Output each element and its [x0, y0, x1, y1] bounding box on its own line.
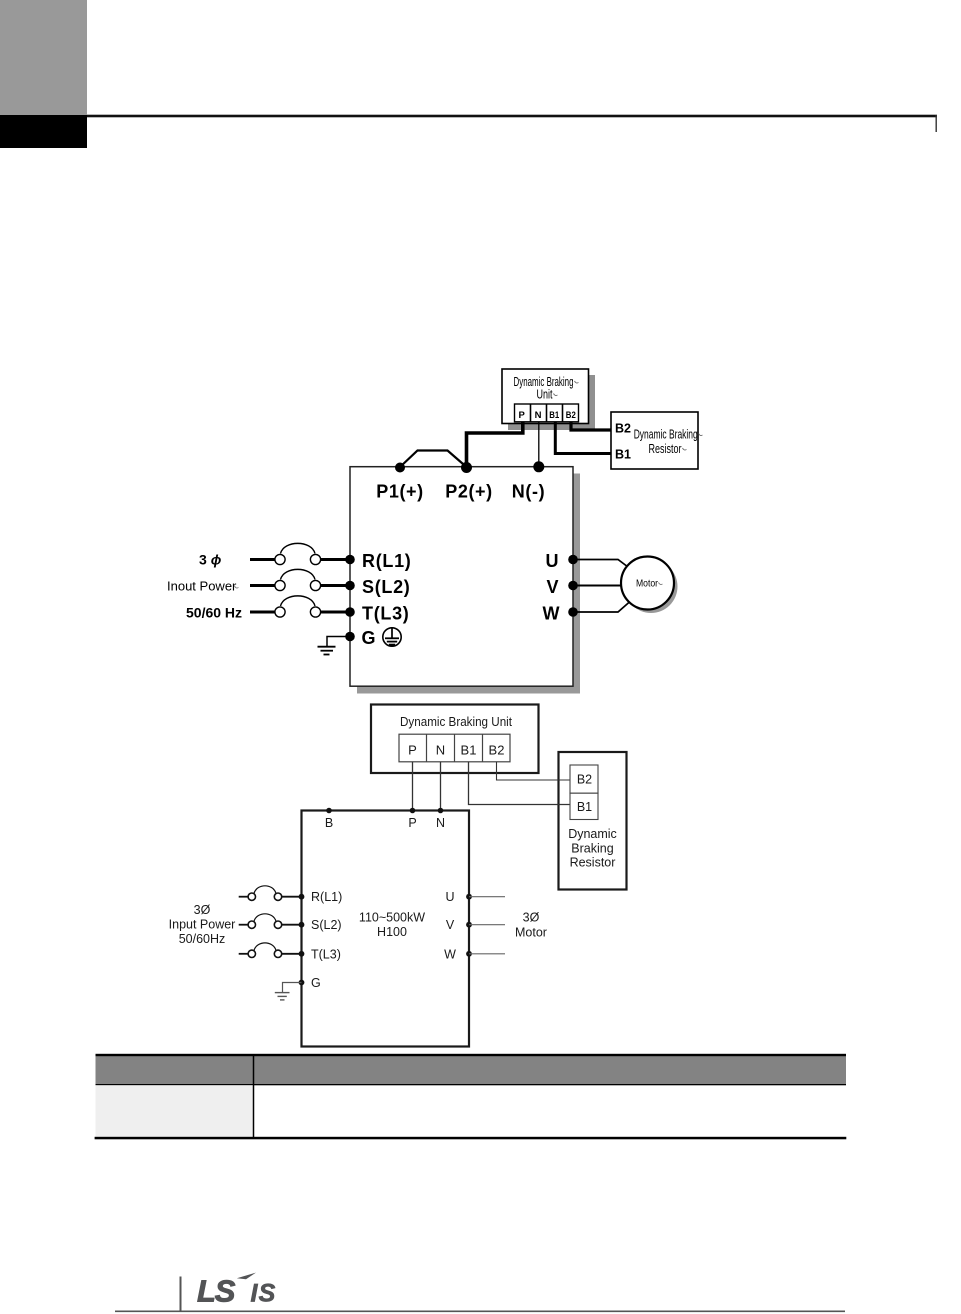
svg-text:B2: B2 [577, 773, 592, 787]
wire B2 unit to resistor 2 [497, 762, 571, 780]
svg-text:P: P [408, 816, 416, 830]
svg-text:Inout Power: Inout Power [167, 579, 237, 594]
svg-text:Braking: Braking [571, 842, 613, 856]
svg-text:B1: B1 [577, 800, 592, 814]
svg-text:T(L3): T(L3) [362, 603, 410, 623]
dynamic braking unit U20 box [371, 705, 539, 774]
svg-text:N: N [535, 410, 542, 421]
LSIS logo [197, 1273, 277, 1309]
label P2(+) [445, 481, 493, 501]
label W [543, 603, 560, 623]
header black sidebar block [0, 115, 87, 148]
dynamic braking unit U10 title [514, 374, 579, 401]
label S(L2) [362, 577, 411, 597]
wire U to motor [573, 560, 630, 569]
terminal strip U20 [399, 734, 510, 762]
wire N2 unit to inverter [440, 762, 442, 811]
svg-text:LS: LS [197, 1274, 236, 1309]
pin B2 label U10 [566, 410, 576, 421]
terminal dot G 2 [299, 980, 305, 986]
dynamic braking resistor R10 box [611, 412, 698, 469]
motor M1 [621, 557, 674, 610]
wire P to P2 [467, 422, 523, 466]
terminal dot R(L1) [345, 555, 355, 565]
table column divider [253, 1054, 255, 1137]
terminal dot V 2 [466, 922, 472, 928]
dynamic braking unit U10 box [502, 369, 589, 424]
svg-text:V: V [446, 918, 455, 932]
svg-text:R(L1): R(L1) [362, 551, 412, 571]
label 3 phase motor 2 [515, 911, 547, 940]
inverter box 2 [302, 811, 470, 1047]
header rule [87, 115, 937, 118]
wire B2 to resistor [571, 422, 611, 431]
resistor R10 terminal label B1 [615, 448, 631, 462]
input switch row R [250, 543, 348, 564]
pin B2 label U20 [489, 743, 505, 758]
svg-text:3Ø: 3Ø [194, 903, 211, 917]
terminal dot U 2 [466, 894, 472, 900]
label G [362, 628, 376, 648]
motor M1 label [636, 579, 663, 590]
terminal dot S(L2) [345, 581, 355, 591]
terminal dot W [568, 607, 578, 617]
svg-text:B1: B1 [549, 410, 560, 421]
terminal strip U10 [515, 404, 579, 422]
label P1(+) [376, 481, 424, 501]
svg-text:P2(+): P2(+) [445, 481, 493, 501]
svg-text:N: N [436, 816, 445, 830]
protective earth symbol [383, 627, 401, 646]
dynamic braking unit U20 title [400, 715, 512, 729]
wire W to motor 2 [469, 953, 505, 955]
inverter box 1 [350, 467, 573, 687]
svg-text:S(L2): S(L2) [311, 918, 342, 932]
table header row [96, 1054, 847, 1086]
input switch row T [250, 596, 348, 617]
svg-text:Resistor: Resistor [649, 441, 682, 456]
node P2(+) [461, 462, 472, 473]
header gray sidebar block [0, 0, 87, 115]
wire P2 unit to inverter [412, 762, 414, 811]
svg-text:H100: H100 [377, 925, 407, 939]
svg-text:R(L1): R(L1) [311, 890, 342, 904]
label Inout Power [167, 579, 239, 594]
label 3 phi [199, 552, 222, 568]
label 110~500kW H100 [359, 911, 425, 940]
svg-text:B1: B1 [615, 448, 631, 462]
input switch row R 2 [239, 886, 300, 901]
pin N label U10 [535, 410, 542, 421]
node N(-) [533, 461, 544, 472]
label W 2 [444, 947, 456, 961]
svg-text:N(-): N(-) [512, 481, 545, 501]
svg-text:3 ϕ: 3 ϕ [199, 552, 222, 568]
svg-text:U: U [445, 890, 454, 904]
label R(L1) [362, 551, 412, 571]
terminal dot U [568, 555, 578, 565]
svg-text:P: P [519, 410, 526, 421]
node B [326, 808, 332, 814]
svg-text:W: W [444, 947, 456, 961]
resistor R20 terminal box B1 [570, 793, 598, 819]
table body left cell [96, 1085, 254, 1137]
svg-text:B2: B2 [566, 410, 576, 421]
svg-text:Motor: Motor [636, 579, 659, 590]
svg-text:S(L2): S(L2) [362, 577, 411, 597]
label P node [408, 816, 416, 830]
terminal dot T(L3) 2 [299, 951, 305, 957]
label 50/60 Hz [186, 605, 242, 621]
svg-text:Dynamic Braking Unit: Dynamic Braking Unit [400, 715, 512, 729]
svg-text:50/60Hz: 50/60Hz [179, 932, 226, 946]
label R(L1) 2 [311, 890, 342, 904]
footer separator bar [180, 1277, 182, 1313]
svg-text:110~500kW: 110~500kW [359, 911, 425, 925]
pin B1 label U20 [461, 743, 477, 758]
svg-text:W: W [543, 603, 560, 623]
jumper wire P1-P2 [400, 451, 467, 468]
svg-text:IS: IS [251, 1279, 277, 1307]
dynamic braking unit U10 shadow [508, 375, 595, 430]
svg-text:Input Power: Input Power [169, 918, 236, 932]
label V [546, 577, 558, 597]
header rule end tick [935, 115, 937, 132]
input switch row S [250, 569, 348, 590]
svg-text:Dynamic Braking: Dynamic Braking [634, 427, 698, 442]
wire G to ground [327, 637, 350, 647]
resistor R10 title [634, 427, 703, 456]
input switch row S 2 [239, 914, 300, 929]
svg-text:50/60 Hz: 50/60 Hz [186, 605, 242, 621]
svg-text:G: G [362, 628, 376, 648]
terminal dot S(L2) 2 [299, 922, 305, 928]
label N node [436, 816, 445, 830]
svg-text:Unit: Unit [537, 386, 553, 401]
wire B1 to resistor [555, 422, 611, 454]
wire G to ground 2 [283, 983, 302, 993]
node P [410, 808, 416, 814]
ground symbol 1 [318, 647, 336, 655]
label B node [325, 816, 333, 830]
inverter box 1 shadow [357, 474, 580, 694]
resistor R20 title [568, 827, 617, 870]
table bottom border [95, 1137, 847, 1140]
motor M1 shadow [625, 560, 678, 613]
label T(L3) 2 [311, 947, 341, 961]
svg-text:B: B [325, 816, 333, 830]
label U [546, 551, 559, 571]
label G 2 [311, 976, 321, 990]
pin N label U20 [436, 743, 445, 758]
dynamic braking resistor R20 box [559, 752, 627, 890]
label V 2 [446, 918, 455, 932]
svg-text:B2: B2 [489, 743, 505, 758]
svg-text:3Ø: 3Ø [523, 911, 540, 925]
terminal dot V [568, 581, 578, 591]
svg-text:Dynamic: Dynamic [568, 827, 617, 841]
pin P label U20 [408, 743, 417, 758]
svg-text:N: N [436, 743, 445, 758]
input switch row T 2 [239, 943, 300, 958]
svg-text:B2: B2 [615, 422, 631, 436]
pin P label U10 [519, 410, 526, 421]
svg-text:Resistor: Resistor [570, 856, 616, 870]
svg-text:P: P [408, 743, 417, 758]
svg-text:G: G [311, 976, 321, 990]
svg-text:P1(+): P1(+) [376, 481, 424, 501]
svg-text:Motor: Motor [515, 926, 547, 940]
svg-text:T(L3): T(L3) [311, 947, 341, 961]
node N [438, 808, 444, 814]
label U 2 [445, 890, 454, 904]
resistor R20 terminal box B2 [570, 765, 598, 793]
resistor R10 terminal label B2 [615, 422, 631, 436]
wire W to motor [573, 602, 630, 613]
node P1(+) [395, 463, 405, 473]
label T(L3) [362, 603, 410, 623]
label N(-) [512, 481, 545, 501]
wire U to motor 2 [469, 896, 505, 898]
label 3 phase input 2 [169, 903, 236, 946]
wire V to motor [573, 585, 621, 587]
wire N to N(-) [538, 422, 540, 466]
terminal dot R(L1) 2 [299, 894, 305, 900]
label S(L2) 2 [311, 918, 342, 932]
terminal dot W 2 [466, 951, 472, 957]
wire B1 unit to resistor 2 [469, 762, 571, 805]
terminal dot T(L3) [345, 607, 355, 617]
footer rule [115, 1310, 845, 1312]
terminal dot G [345, 632, 355, 642]
svg-text:V: V [546, 577, 558, 597]
svg-text:U: U [546, 551, 559, 571]
ground symbol 2 [275, 993, 290, 1000]
wire V to motor 2 [469, 924, 505, 926]
pin B1 label U10 [549, 410, 560, 421]
svg-text:B1: B1 [461, 743, 477, 758]
